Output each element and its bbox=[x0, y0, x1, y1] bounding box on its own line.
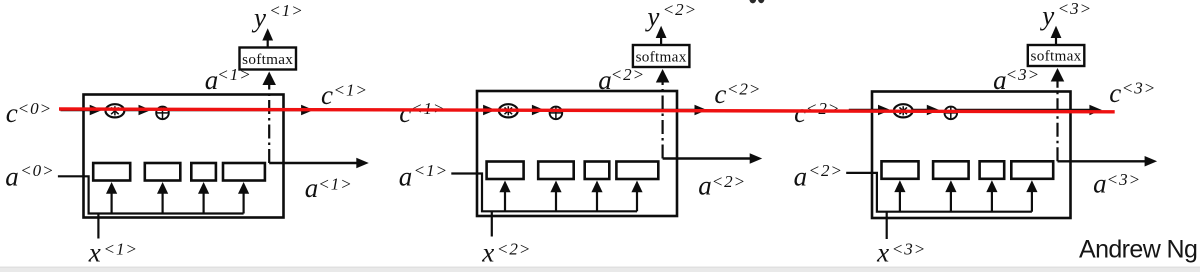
gate box 3 of cell 3 bbox=[980, 161, 1005, 179]
arrow into gate 3 of cell 3 bbox=[991, 189, 993, 212]
c-line output wire of cell 1 bbox=[169, 109, 303, 111]
arrow into gate 1 of cell 3 bbox=[899, 189, 901, 212]
gate box 1 of cell 3 bbox=[882, 161, 919, 179]
softmax box of cell 2 bbox=[633, 45, 690, 67]
svg-text:<0>: <0> bbox=[18, 99, 52, 118]
dash-dot riser wire from a to softmax of cell 1 bbox=[268, 85, 270, 163]
svg-text:<2>: <2> bbox=[809, 161, 843, 180]
gate box 1 of cell 1 bbox=[93, 163, 130, 181]
arrow from softmax to y of cell 3 bbox=[1055, 37, 1057, 45]
svg-text:<3>: <3> bbox=[1006, 65, 1040, 84]
arrow into gate 1 of cell 2 bbox=[504, 189, 506, 211]
svg-text:<3>: <3> bbox=[892, 240, 926, 259]
svg-text:<1>: <1> bbox=[217, 65, 251, 84]
c-line wire into cell 1 bbox=[61, 109, 93, 111]
svg-text:y: y bbox=[1039, 1, 1054, 31]
elementwise-multiply node of cell 2 bbox=[499, 104, 518, 117]
svg-text:c: c bbox=[399, 98, 411, 128]
arrow from softmax to y of cell 1 bbox=[267, 40, 269, 48]
svg-text:x: x bbox=[876, 238, 889, 268]
svg-text:<1>: <1> bbox=[269, 1, 303, 20]
elementwise-multiply node of cell 3 bbox=[894, 104, 913, 117]
arrow from softmax to y of cell 2 bbox=[660, 37, 662, 45]
svg-text:y: y bbox=[644, 2, 659, 32]
dash-dot riser wire from a to softmax of cell 2 bbox=[661, 83, 663, 159]
arrow into gate 3 of cell 2 bbox=[596, 189, 598, 211]
c-line wire between multiply and add of cell 3 bbox=[913, 109, 930, 111]
a output wire of cell 1 bbox=[269, 162, 358, 164]
svg-text:softmax: softmax bbox=[636, 49, 687, 66]
svg-text:<1>: <1> bbox=[334, 81, 368, 100]
c-line output wire of cell 3 bbox=[957, 109, 1091, 111]
LSTM cell 2 outer box bbox=[477, 91, 677, 216]
arrow into gate 4 of cell 1 bbox=[243, 191, 245, 214]
softmax box of cell 3 bbox=[1028, 45, 1085, 66]
svg-text:<1>: <1> bbox=[414, 161, 448, 180]
svg-text:<2>: <2> bbox=[611, 65, 645, 84]
LSTM cell 1 outer box bbox=[84, 95, 284, 218]
arrow into softmax of cell 3 bbox=[1051, 68, 1065, 82]
gate box 4 of cell 3 bbox=[1011, 161, 1053, 179]
elementwise-add node of cell 2 bbox=[550, 107, 563, 120]
gate box 3 of cell 2 bbox=[585, 162, 610, 180]
svg-text:<3>: <3> bbox=[1107, 170, 1141, 189]
svg-text:c: c bbox=[1109, 78, 1121, 108]
svg-text:x: x bbox=[88, 238, 101, 268]
svg-text:a: a bbox=[399, 162, 413, 192]
c-line output wire of cell 2 bbox=[562, 109, 696, 111]
gate box 4 of cell 1 bbox=[223, 163, 265, 181]
svg-text:c: c bbox=[321, 80, 333, 110]
gate box 2 of cell 1 bbox=[145, 163, 181, 181]
elementwise-add node of cell 3 bbox=[945, 107, 958, 120]
arrow into gate 4 of cell 3 bbox=[1031, 189, 1033, 212]
internal bus wire of cell 1 bbox=[58, 176, 244, 213]
svg-text:<2>: <2> bbox=[663, 0, 697, 19]
svg-text:<0>: <0> bbox=[20, 161, 54, 180]
arrow into gate 4 of cell 2 bbox=[636, 189, 638, 211]
a output wire of cell 2 bbox=[663, 157, 752, 159]
gate box 3 of cell 1 bbox=[191, 163, 216, 181]
c-line wire into cell 3 bbox=[849, 109, 881, 111]
gate box 2 of cell 3 bbox=[933, 161, 969, 179]
svg-text:a: a bbox=[1093, 169, 1107, 199]
c-line wire between multiply and add of cell 1 bbox=[124, 109, 141, 111]
svg-text:softmax: softmax bbox=[1030, 48, 1081, 65]
arrow into gate 2 of cell 2 bbox=[555, 189, 557, 211]
gate box 4 of cell 2 bbox=[616, 162, 658, 180]
x input wire of cell 3 bbox=[886, 212, 888, 239]
arrow into gate 2 of cell 3 bbox=[950, 189, 952, 212]
svg-text:a: a bbox=[598, 65, 612, 95]
dash-dot riser wire from a to softmax of cell 3 bbox=[1056, 82, 1058, 162]
LSTM cell 3 outer box bbox=[872, 92, 1071, 219]
svg-text:a: a bbox=[698, 171, 712, 201]
cut-off glyph remnant at top bbox=[749, 0, 756, 3]
softmax box of cell 1 bbox=[240, 48, 297, 70]
c-line wire into cell 2 bbox=[454, 109, 486, 111]
svg-text:<2>: <2> bbox=[712, 172, 746, 191]
arrow into softmax of cell 2 bbox=[656, 69, 670, 83]
svg-text:y: y bbox=[251, 3, 266, 33]
x input wire of cell 2 bbox=[491, 211, 493, 236]
svg-text:a: a bbox=[305, 173, 319, 203]
svg-text:x: x bbox=[481, 238, 494, 268]
gate box 1 of cell 2 bbox=[487, 162, 524, 180]
svg-text:<1>: <1> bbox=[318, 174, 352, 193]
internal bus wire of cell 3 bbox=[846, 173, 1032, 212]
svg-text:c: c bbox=[6, 98, 18, 128]
gate box 2 of cell 2 bbox=[538, 162, 574, 180]
svg-text:<3>: <3> bbox=[1122, 79, 1156, 98]
svg-text:<2>: <2> bbox=[806, 99, 840, 118]
internal bus wire of cell 2 bbox=[451, 174, 637, 212]
svg-text:<1>: <1> bbox=[104, 240, 138, 259]
svg-text:<2>: <2> bbox=[727, 80, 761, 99]
elementwise-multiply node of cell 1 bbox=[106, 104, 125, 117]
svg-text:a: a bbox=[205, 65, 219, 95]
arrow into gate 2 of cell 1 bbox=[162, 191, 164, 214]
elementwise-add node of cell 1 bbox=[156, 107, 169, 120]
svg-text:c: c bbox=[794, 98, 806, 128]
arrow into gate 1 of cell 1 bbox=[110, 191, 112, 214]
svg-text:<2>: <2> bbox=[497, 240, 531, 259]
svg-text:Andrew Ng: Andrew Ng bbox=[1079, 236, 1197, 264]
x input wire of cell 1 bbox=[97, 214, 99, 239]
bottom gray bar bbox=[0, 267, 1200, 272]
arrow into gate 3 of cell 1 bbox=[203, 191, 205, 214]
svg-text:<3>: <3> bbox=[1058, 0, 1092, 18]
c-line wire between multiply and add of cell 2 bbox=[518, 109, 535, 111]
a output wire of cell 3 bbox=[1058, 160, 1147, 162]
svg-text:a: a bbox=[5, 162, 18, 192]
svg-text:c: c bbox=[714, 79, 726, 109]
svg-text:a: a bbox=[794, 162, 808, 192]
arrow into softmax of cell 1 bbox=[262, 72, 276, 86]
red annotation line over c path bbox=[59, 109, 1115, 112]
svg-text:a: a bbox=[993, 65, 1007, 95]
